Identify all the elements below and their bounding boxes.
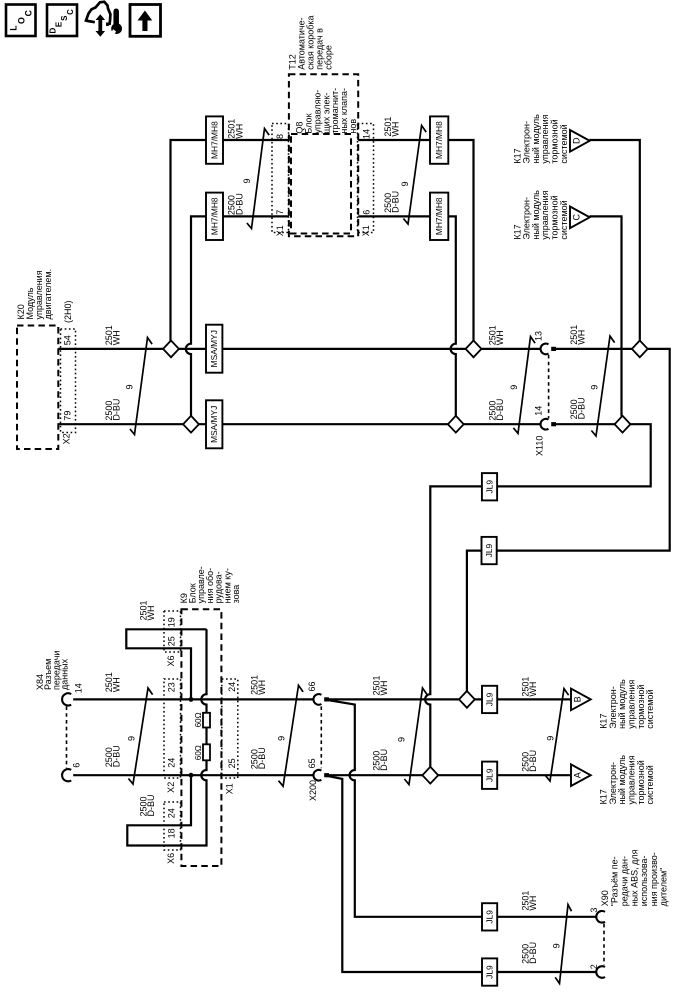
svg-text:66: 66 [307, 681, 317, 691]
svg-text:редачи дан-: редачи дан- [620, 856, 630, 906]
svg-text:D-BU: D-BU [379, 749, 389, 771]
svg-text:системой: системой [559, 200, 569, 239]
svg-text:X2: X2 [166, 782, 176, 793]
option code JL9 (2501 WH to K17 B) [482, 686, 497, 713]
svg-text:X2: X2 [62, 433, 72, 444]
svg-text:O: O [16, 17, 26, 24]
svg-text:9: 9 [590, 385, 600, 390]
svg-text:сборе: сборе [323, 45, 333, 70]
wire 2500 D-BU branch X200-65 down to X90 [326, 776, 597, 973]
svg-text:9: 9 [242, 178, 252, 183]
svg-text:MH7/MH8: MH7/MH8 [434, 197, 444, 235]
svg-text:JL9: JL9 [485, 692, 495, 706]
svg-text:D-BU: D-BU [528, 750, 538, 772]
twisted pair mark 9 (X84) [128, 688, 152, 784]
splice on 2500 D-BU (K20 branch) [183, 416, 199, 433]
svg-text:9: 9 [545, 736, 555, 741]
icon button DESC [47, 5, 77, 37]
option code JL9 bridge (2500) [482, 473, 497, 500]
svg-text:19: 19 [167, 617, 177, 627]
off-page connector A to K17 [571, 764, 591, 786]
option code JL9 (2500 D-BU to K17 A) [482, 762, 497, 789]
harness code MSA/MYJ (2501) [206, 325, 222, 373]
splice on 2500 D-BU (K17 C branch) [615, 416, 631, 433]
off-page connector B to K17 [571, 689, 591, 711]
svg-text:системой: системой [559, 124, 569, 163]
wire K9 resistor chain to pin18 stub (hops 2500) [127, 760, 206, 845]
resistor 60 Ohm upper [203, 713, 210, 728]
link X90 pins [603, 924, 605, 965]
svg-text:C: C [572, 214, 582, 221]
twisted pair mark 9 (row E) [555, 905, 571, 984]
svg-text:D-BU: D-BU [257, 747, 267, 769]
module K9 body control module box [181, 609, 221, 866]
module T12 automatic transmission box [289, 74, 358, 236]
svg-text:14: 14 [534, 406, 544, 416]
svg-text:25: 25 [227, 758, 237, 768]
svg-text:D-BU: D-BU [146, 795, 156, 817]
module K20 engine control module box [17, 326, 58, 450]
splice on 2501 WH (JL9 bridge) [459, 691, 475, 708]
svg-text:9: 9 [552, 943, 562, 948]
svg-text:9: 9 [277, 736, 287, 741]
splice on 2501 WH (T12 branch) [466, 341, 482, 358]
twisted pair mark 9 (row A left) [247, 129, 269, 229]
svg-text:ния произво-: ния произво- [649, 852, 659, 906]
wire 2500 D-BU row-B right of X110, down through JL9 bridge (hops 2501) [425, 424, 651, 767]
svg-text:WH: WH [146, 606, 156, 621]
svg-text:WH: WH [257, 680, 267, 695]
svg-text:8: 8 [275, 134, 285, 139]
connector X2 of K9 [164, 679, 181, 778]
svg-text:X1: X1 [224, 783, 234, 794]
svg-text:двигателем.: двигателем. [43, 269, 53, 320]
svg-text:24: 24 [227, 682, 237, 692]
svg-text:X6: X6 [166, 655, 176, 666]
svg-text:3: 3 [589, 908, 599, 913]
svg-text:WH: WH [234, 124, 244, 139]
splice on 2501 WH (K17 D branch) [632, 341, 648, 358]
wire 2501 WH row-A left segment [171, 140, 289, 341]
wire between 60-ohm resistors [205, 728, 207, 745]
terminal X84 pin 14 [62, 693, 71, 705]
svg-text:D-BU: D-BU [391, 191, 401, 213]
option code JL9 (2501 WH to X90) [482, 903, 497, 930]
svg-text:D-BU: D-BU [112, 745, 122, 767]
svg-text:Х90: Х90 [600, 890, 610, 906]
svg-text:D-BU: D-BU [528, 942, 538, 964]
svg-text:X1: X1 [275, 225, 285, 236]
svg-text:JL9: JL9 [485, 910, 495, 924]
splice on 2500 D-BU (JL9 bridge) [422, 767, 438, 784]
terminal X200 pin 66 [313, 694, 321, 705]
wire 2500 D-BU row-A right segment (hops 2501) [358, 216, 456, 416]
svg-text:D: D [572, 137, 582, 144]
wire 2500 D-BU row-A left segment (hops 2501 at splice column) [186, 216, 289, 416]
svg-text:65: 65 [307, 758, 317, 768]
svg-text:использова-: использова- [639, 855, 649, 906]
svg-text:JL9: JL9 [485, 965, 495, 979]
svg-text:D-BU: D-BU [495, 399, 505, 421]
svg-text:14: 14 [362, 129, 372, 139]
svg-text:2: 2 [589, 964, 599, 969]
svg-text:54: 54 [63, 335, 73, 345]
svg-text:7: 7 [275, 210, 285, 215]
svg-text:X6: X6 [166, 853, 176, 864]
option code JL9 bridge (2501) [482, 537, 497, 564]
twisted pair mark 9 (row B right) [591, 336, 614, 436]
svg-text:79: 79 [63, 411, 73, 421]
svg-text:данных: данных [60, 658, 70, 690]
wire 2501 WH row-A right segment [358, 140, 473, 341]
wire 2500 D-BU row-B left of X110 [58, 423, 540, 425]
svg-text:нов: нов [348, 119, 358, 134]
svg-text:WH: WH [528, 682, 538, 697]
harness code MH7/MH8 (2501 right) [430, 116, 448, 163]
svg-text:D-BU: D-BU [112, 399, 122, 421]
svg-text:MSA/MYJ: MSA/MYJ [209, 330, 219, 367]
twisted pair mark 9 (K20) [130, 338, 152, 435]
svg-text:9: 9 [126, 736, 136, 741]
harness code MSA/MYJ (2500) [206, 400, 222, 448]
svg-text:X200: X200 [308, 780, 318, 801]
icon button forward arrow [130, 5, 161, 37]
svg-text:WH: WH [112, 330, 122, 345]
link X110 pins [548, 355, 550, 418]
svg-text:24: 24 [167, 758, 177, 768]
wire 2501 WH row-D from X200 to triangle B [324, 698, 571, 700]
svg-text:JL9: JL9 [485, 480, 495, 494]
junction K9 pin24 jumper on 2500 D-BU [189, 773, 194, 778]
svg-text:JL9: JL9 [484, 543, 494, 557]
svg-text:D-BU: D-BU [234, 193, 244, 215]
wire from triangle D to splice [590, 140, 640, 341]
svg-text:WH: WH [391, 122, 401, 137]
svg-text:WH: WH [528, 896, 538, 911]
wire 2501 WH row-B right of X110, down through JL9 bridge to lower splice [467, 349, 670, 692]
svg-text:14: 14 [74, 683, 84, 693]
link X200 pins [320, 706, 322, 768]
svg-text:WH: WH [577, 330, 587, 345]
connector X6 of K9 upper [164, 611, 181, 652]
splice on 2501 WH (K20 branch) [163, 341, 179, 358]
link X84 pins [66, 706, 68, 768]
svg-text:JL9: JL9 [485, 768, 495, 782]
svg-text:"Разъём пе-: "Разъём пе- [610, 856, 620, 906]
terminal X84 pin 6 [62, 769, 71, 781]
svg-text:X110: X110 [534, 436, 544, 456]
twisted pair mark 9 (row A right) [403, 126, 426, 225]
svg-text:L: L [9, 25, 19, 31]
harness code MH7/MH8 (2501 left) [206, 116, 223, 163]
wire 2501 WH branch X200-66 down to X90 (hops 2500) [326, 700, 597, 917]
option code JL9 (2500 D-BU to X90) [482, 958, 497, 985]
twisted pair mark 9 (K9 right) [279, 685, 304, 786]
twisted pair mark 9 (row D after X200) [404, 688, 427, 785]
svg-text:системой: системой [645, 690, 655, 729]
wire from triangle C to splice [590, 216, 622, 416]
svg-text:24: 24 [167, 808, 177, 818]
svg-text:9: 9 [397, 737, 407, 742]
svg-text:системой: системой [645, 765, 655, 804]
twisted pair mark 9 (row D right) [545, 689, 568, 781]
svg-text:D: D [49, 27, 58, 33]
connector X2 of K20 [61, 329, 76, 433]
svg-text:A: A [573, 772, 583, 778]
svg-text:MH7/MH8: MH7/MH8 [434, 121, 444, 159]
module Q8 solenoid valve body box [291, 134, 351, 234]
connector X1 of K9 [222, 679, 238, 778]
wire K9 jumper pins 19-25 to CAN high [126, 629, 206, 699]
svg-text:6: 6 [362, 210, 372, 215]
svg-text:WH: WH [379, 681, 389, 696]
connector X1 of Q8 right [358, 124, 374, 233]
svg-text:18: 18 [167, 828, 177, 838]
terminal X110 pin 13 [541, 344, 549, 355]
svg-text:13: 13 [534, 331, 544, 341]
svg-text:60Ω: 60Ω [194, 745, 203, 760]
svg-text:дителем": дителем" [659, 868, 669, 907]
harness code MH7/MH8 (2500 right) [430, 193, 448, 240]
wire 2501 WH row-B left of X110 [58, 348, 540, 350]
terminal X90 pin 2 [596, 966, 605, 978]
wire 2500 D-BU row-D from X84 [73, 774, 313, 776]
off-page connector C to K17 [570, 207, 590, 229]
splice on 2500 D-BU (T12 branch) [448, 416, 464, 433]
svg-text:23: 23 [167, 682, 177, 692]
svg-text:C: C [24, 9, 34, 16]
svg-text:MH7/MH8: MH7/MH8 [210, 197, 220, 235]
svg-text:E: E [54, 21, 63, 27]
svg-text:B: B [573, 696, 583, 702]
svg-text:60Ω: 60Ω [194, 712, 203, 727]
svg-text:MH7/MH8: MH7/MH8 [210, 121, 220, 159]
svg-text:D-BU: D-BU [577, 397, 587, 419]
resistor 60 Ohm lower [203, 744, 210, 760]
wire 2500 D-BU row-D from X200 to triangle A [324, 774, 571, 776]
harness code MH7/MH8 (2500 left) [206, 193, 223, 240]
svg-text:C: C [66, 9, 75, 15]
off-page connector D to K17 [570, 130, 590, 152]
svg-text:(2Н0): (2Н0) [63, 300, 73, 323]
wire K9 resistor chain from pin19 stub (hops 2501) [201, 629, 206, 713]
svg-text:WH: WH [495, 330, 505, 345]
terminal X110 pin 14 [541, 419, 549, 430]
junction K9 pin25 jumper on 2501 WH [189, 697, 194, 702]
svg-text:MSA/MYJ: MSA/MYJ [209, 406, 219, 443]
icon vehicle with arrows and wrench [86, 2, 110, 26]
wire 2501 WH row-D from X84 [73, 698, 313, 700]
svg-text:WH: WH [112, 677, 122, 692]
svg-text:6: 6 [72, 763, 82, 768]
twisted pair mark 9 (row B mid) [513, 337, 535, 434]
terminal X90 pin 3 [596, 911, 605, 923]
svg-text:9: 9 [125, 384, 135, 389]
icon button LOC [6, 5, 36, 37]
connector X1 of Q8 left [272, 124, 289, 233]
svg-text:9: 9 [509, 385, 519, 390]
connector X6 of K9 lower [164, 802, 181, 850]
svg-text:25: 25 [167, 636, 177, 646]
svg-text:зова: зова [231, 585, 241, 604]
terminal X200 pin 65 [313, 770, 321, 781]
svg-text:X1: X1 [361, 225, 371, 236]
svg-text:9: 9 [400, 181, 410, 186]
svg-text:ных ABS, для: ных ABS, для [629, 849, 639, 906]
